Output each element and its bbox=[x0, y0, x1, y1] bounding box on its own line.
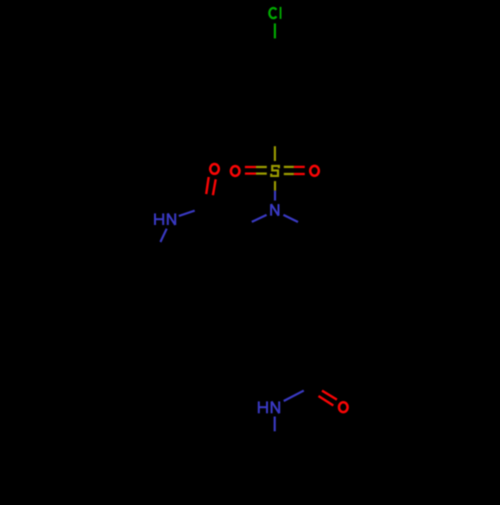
bond phenyl-S (S half) bbox=[274, 146, 276, 161]
bond N-C6 piperidine (N half) bbox=[283, 215, 298, 222]
double bond S=O left (S half) bbox=[256, 167, 267, 174]
amide label HN (top left) bbox=[155, 213, 175, 225]
bond S-N (N half) bbox=[274, 191, 276, 201]
oxygen label O (top amide carbonyl) bbox=[210, 164, 219, 174]
bond N-C2 piperidine (N half) bbox=[252, 215, 267, 222]
double bond S=O right (S half) bbox=[284, 167, 294, 174]
oxygen label O (sulfonyl right) bbox=[310, 166, 319, 176]
bond HN-C(=O) bottom amide (N half) bbox=[284, 391, 304, 401]
nitrogen label N (piperidine) bbox=[271, 204, 278, 216]
sulfur label S1 bbox=[271, 166, 279, 176]
oxygen label O (bottom amide carbonyl) bbox=[339, 402, 348, 412]
bond HN-CH2 bottom amide (N half) bbox=[274, 417, 276, 432]
double bond S=O left (O half) bbox=[245, 167, 256, 174]
bond Cl-phenyl (Cl half) bbox=[274, 23, 276, 38]
double bond S=O right (O half) bbox=[294, 167, 305, 174]
double bond C=O top amide (O halves) bbox=[206, 177, 216, 195]
bond HN-C(=O) top amide (N half) bbox=[179, 211, 195, 216]
double bond C=O bottom amide (O halves) bbox=[319, 391, 337, 406]
bond S-N (S half) bbox=[274, 181, 276, 191]
oxygen label O (sulfonyl left) bbox=[231, 166, 240, 176]
amide label HN (bottom) bbox=[259, 401, 279, 413]
bond HN-CH3 top amide (N half) bbox=[160, 229, 166, 242]
chlorine label Cl bbox=[269, 7, 280, 19]
